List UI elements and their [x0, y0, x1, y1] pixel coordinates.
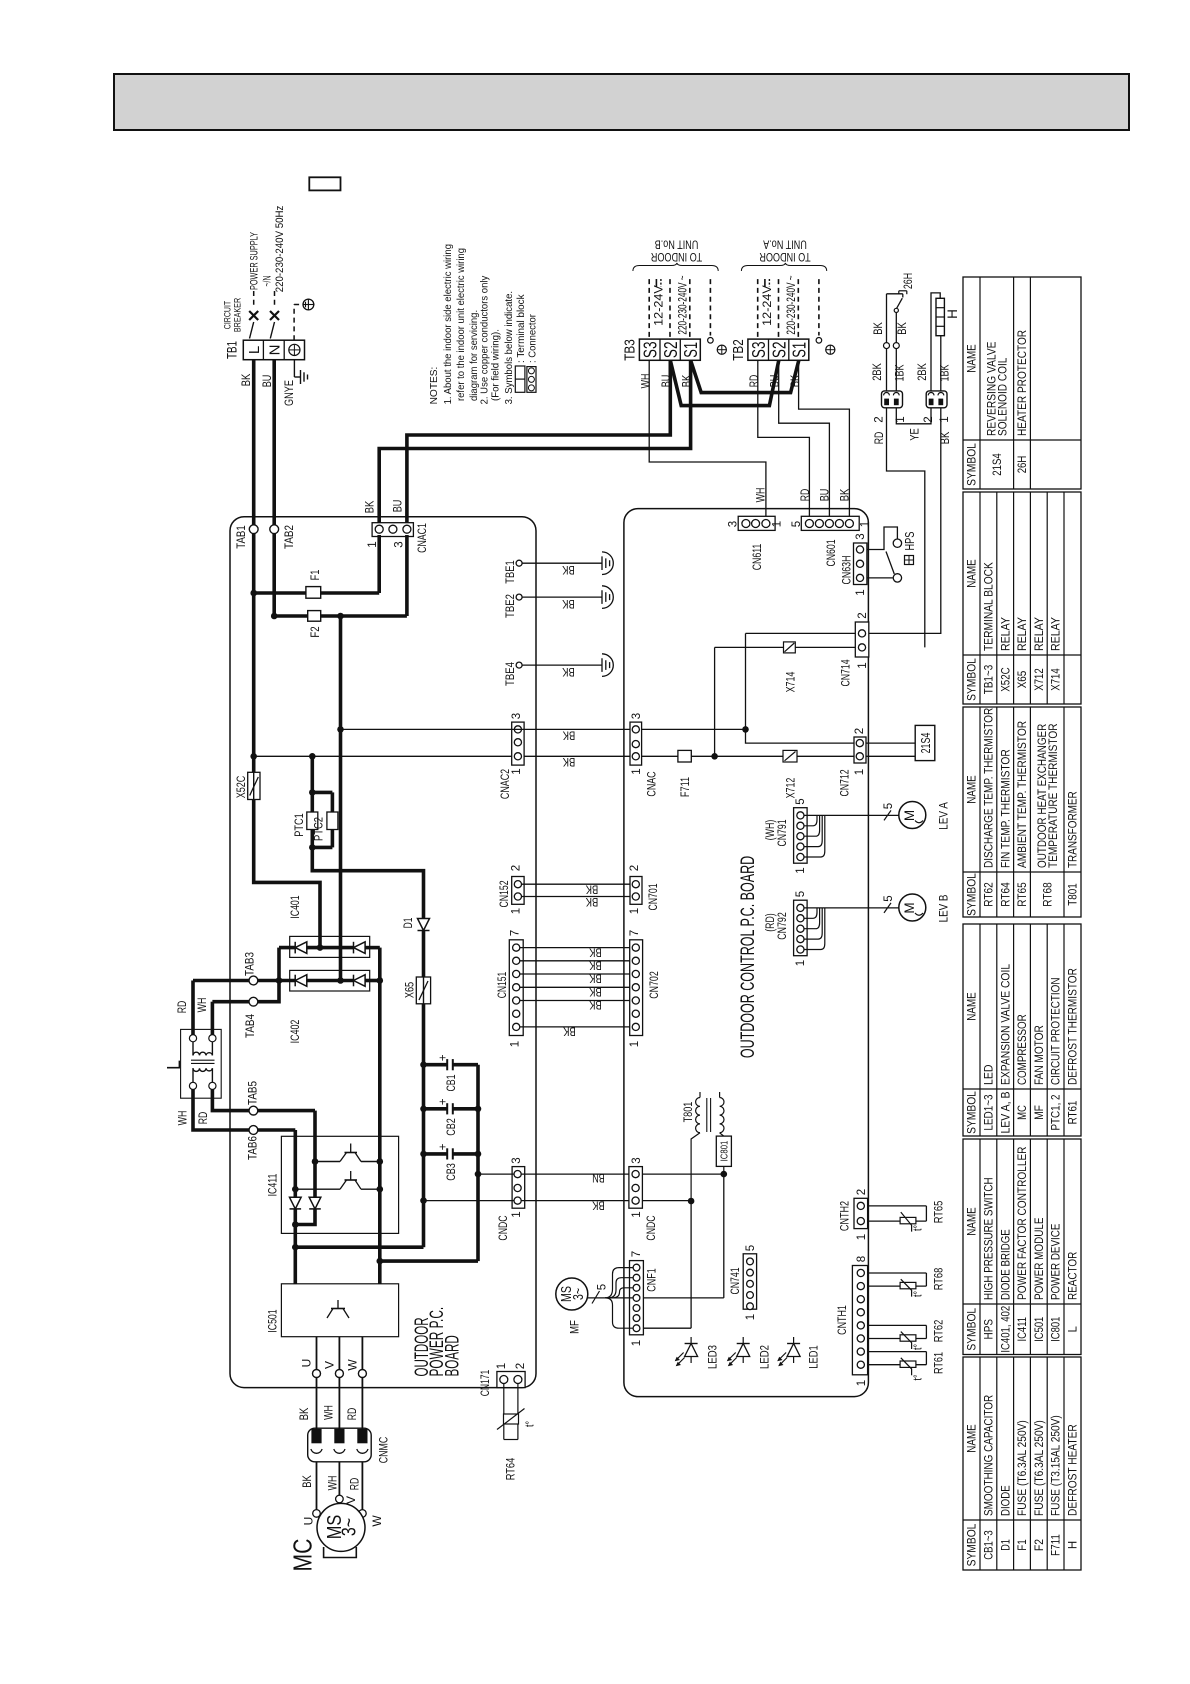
svg-text:M: M — [902, 810, 917, 821]
svg-text:L: L — [246, 346, 263, 354]
connector CN702 — [630, 940, 643, 1036]
svg-text:1: 1 — [745, 1314, 757, 1320]
svg-text:LED: LED — [984, 1065, 996, 1085]
svg-text:LED3: LED3 — [705, 1345, 719, 1369]
svg-text:SMOOTHING CAPACITOR: SMOOTHING CAPACITOR — [984, 1395, 996, 1516]
svg-text:IC411: IC411 — [1017, 1317, 1029, 1342]
svg-text:CB2: CB2 — [444, 1118, 458, 1136]
svg-text:CNAC2: CNAC2 — [498, 769, 512, 799]
svg-text:1: 1 — [857, 662, 869, 668]
IC411 diode DL — [290, 1197, 302, 1209]
svg-text:BK: BK — [585, 895, 598, 907]
svg-text:RELAY: RELAY — [1051, 617, 1063, 651]
IC411 diode DR — [313, 1162, 317, 1198]
svg-text:+: + — [438, 1054, 450, 1061]
connector pair for 26H — [882, 391, 903, 408]
svg-text:1: 1 — [631, 1340, 643, 1346]
svg-text:CNAC: CNAC — [644, 771, 658, 796]
wire BU TB3-S2 to CNAC1 pin3 — [407, 360, 670, 523]
svg-text:5: 5 — [883, 895, 895, 901]
svg-text:NAME: NAME — [967, 775, 979, 804]
wire RD TB2-S3 to CN601 pin5 — [758, 360, 810, 519]
svg-text:WH: WH — [178, 1111, 190, 1126]
thermistor RT61 — [868, 1351, 927, 1353]
svg-text:S2: S2 — [661, 342, 681, 359]
svg-text:TBE1: TBE1 — [503, 560, 517, 584]
svg-text:BREAKER: BREAKER — [232, 298, 243, 332]
svg-text:BK: BK — [562, 728, 575, 740]
svg-text:X714: X714 — [783, 671, 797, 692]
svg-text:LEV A, B: LEV A, B — [1000, 1091, 1012, 1133]
svg-text:t°: t° — [913, 1225, 925, 1231]
svg-text:MF: MF — [567, 1320, 581, 1334]
svg-text:t°: t° — [913, 1291, 925, 1297]
wire to 26H right — [895, 313, 897, 343]
high pressure switch HPS — [867, 527, 898, 550]
svg-text:RD: RD — [177, 1001, 189, 1014]
wire BK heater connector to CN714 — [869, 408, 941, 634]
connector CNDC control — [629, 1167, 643, 1209]
svg-text:(For field wiring).: (For field wiring). — [491, 329, 502, 401]
thermistor RT62 — [868, 1324, 927, 1326]
wire CNAC pin3 to CN712 pin2 — [642, 728, 746, 730]
svg-text:: Terminal block: : Terminal block — [516, 293, 527, 363]
wire BK TB2-S1 to CN601 pin1 — [799, 360, 850, 519]
relay X65 — [416, 977, 430, 1004]
svg-text:RELAY: RELAY — [1034, 617, 1046, 651]
capacitor CB3 — [420, 1151, 427, 1158]
svg-text:BU: BU — [393, 500, 405, 513]
svg-text:DIODE: DIODE — [1000, 1485, 1012, 1516]
connector CNAC2 — [512, 722, 524, 765]
connector CN791 — [794, 808, 808, 864]
earth symbol near TB3 — [717, 345, 726, 354]
svg-text:RT64: RT64 — [503, 1457, 517, 1480]
IC501 outputs U V W — [316, 1337, 318, 1370]
svg-text:X712: X712 — [783, 777, 797, 798]
connector CNAC1 — [372, 523, 413, 537]
svg-text:DIODE BRIDGE: DIODE BRIDGE — [1000, 1229, 1012, 1300]
svg-text:2: 2 — [856, 1189, 868, 1195]
terminal TAB1 — [249, 525, 258, 534]
svg-text:BK: BK — [241, 373, 253, 386]
connector pair for heater H — [926, 391, 947, 408]
svg-text:refer to the indoor unit elect: refer to the indoor unit electric wiring — [456, 248, 467, 401]
svg-text:S1: S1 — [789, 342, 809, 358]
svg-text:PTC1: PTC1 — [292, 813, 306, 837]
svg-text:2: 2 — [629, 865, 641, 871]
svg-text:3: 3 — [511, 1157, 523, 1163]
svg-text:NOTES:: NOTES: — [429, 367, 440, 405]
svg-text:X52C: X52C — [1000, 667, 1012, 691]
svg-text:IC801: IC801 — [719, 1141, 731, 1162]
svg-text:D1: D1 — [401, 917, 415, 928]
wire CNAC pin1 via F711 X712 to CN712 pin1 — [642, 755, 678, 757]
svg-text:CNMC: CNMC — [376, 1437, 390, 1464]
wire L bottom-left to TAB6 — [193, 1090, 249, 1131]
svg-text:TERMINAL BLOCK: TERMINAL BLOCK — [984, 562, 996, 651]
svg-text:DISCHARGE TEMP. THERMISTOR: DISCHARGE TEMP. THERMISTOR — [984, 708, 996, 868]
brace TB2 — [741, 263, 826, 271]
table group relays — [963, 492, 1081, 704]
svg-text:5: 5 — [795, 798, 807, 804]
protective earth symbol — [303, 299, 314, 310]
svg-text:CN151: CN151 — [495, 971, 509, 998]
connector CN152 — [512, 877, 524, 905]
svg-text:1: 1 — [860, 521, 872, 527]
connector CNTH2 — [854, 1198, 868, 1228]
connector CN741 — [743, 1254, 756, 1309]
svg-text:SYMBOL: SYMBOL — [967, 1307, 979, 1350]
svg-text:M: M — [902, 902, 917, 913]
svg-text:BK: BK — [589, 985, 602, 997]
svg-text:RELAY: RELAY — [1017, 617, 1029, 651]
connector CN712 — [854, 737, 866, 763]
svg-text:F1: F1 — [1017, 1539, 1029, 1551]
svg-text:RD: RD — [347, 1408, 359, 1421]
svg-text:MC: MC — [1017, 1105, 1029, 1120]
svg-text:TBE2: TBE2 — [503, 594, 517, 618]
connector CN63H — [854, 543, 867, 585]
wire heater left — [931, 293, 940, 391]
svg-text:TAB4: TAB4 — [243, 1014, 257, 1038]
svg-text:COMPRESSOR: COMPRESSOR — [1017, 1014, 1029, 1085]
svg-text:F711: F711 — [678, 777, 692, 798]
connector CN171 — [497, 1372, 525, 1388]
svg-text:BK: BK — [562, 597, 575, 609]
svg-text:GNYE: GNYE — [284, 380, 296, 406]
svg-text:BK: BK — [839, 488, 851, 501]
wires CNF1 to MF — [588, 1297, 633, 1299]
svg-text:POWER DEVICE: POWER DEVICE — [1051, 1223, 1063, 1300]
svg-text:3. Symbols below indicate.: 3. Symbols below indicate. — [504, 291, 515, 405]
outdoor control pc board outline — [624, 509, 869, 1397]
svg-text:WH: WH — [324, 1405, 336, 1420]
svg-text:WH: WH — [327, 1476, 339, 1491]
svg-text:1: 1 — [367, 541, 379, 547]
earth symbol TBE4 — [602, 654, 613, 677]
svg-text:2: 2 — [511, 865, 523, 871]
wire IC801 node to CNF1 pin4 — [723, 1174, 725, 1298]
fuse F2 — [271, 613, 278, 620]
svg-text:POWER FACTOR CONTROLLER: POWER FACTOR CONTROLLER — [1017, 1147, 1029, 1301]
compressor motor MC — [313, 1510, 321, 1518]
svg-text:CB1: CB1 — [444, 1074, 458, 1091]
wire TAB1 down — [252, 534, 256, 757]
svg-text:WH: WH — [755, 488, 767, 503]
svg-text:CN701: CN701 — [646, 883, 660, 910]
power supply dashed leads — [253, 291, 255, 308]
svg-text:MC: MC — [287, 1539, 317, 1572]
svg-text:1: 1 — [511, 768, 523, 774]
svg-text:12-24V: 12-24V — [654, 285, 666, 326]
svg-text:F711: F711 — [1051, 1534, 1063, 1556]
svg-text:1: 1 — [511, 1211, 523, 1217]
svg-text:DEFROST THERMISTOR: DEFROST THERMISTOR — [1068, 968, 1080, 1085]
svg-text:2: 2 — [515, 1363, 527, 1369]
wire L top-left to bus — [191, 981, 195, 1035]
ground symbol — [300, 370, 302, 384]
svg-text:1: 1 — [511, 908, 523, 914]
svg-text:diagram for servicing.: diagram for servicing. — [469, 310, 480, 401]
svg-text:F1: F1 — [308, 569, 322, 580]
svg-text:PTC2: PTC2 — [311, 817, 325, 841]
IC411 transistor Q2 — [295, 1188, 340, 1190]
svg-text:1: 1 — [629, 908, 641, 914]
LED1 — [787, 1344, 800, 1357]
svg-text:3~: 3~ — [339, 1518, 361, 1536]
svg-text:T801: T801 — [1068, 883, 1080, 905]
terminal TAB6 — [249, 1126, 258, 1135]
svg-text:1. About the indoor side elect: 1. About the indoor side electric wiring — [443, 244, 454, 404]
svg-text:5: 5 — [883, 803, 895, 809]
wire CN714 pin1 via X714 — [715, 646, 784, 648]
wire CNDC pin1 node to T801 — [642, 1200, 691, 1202]
svg-text:7: 7 — [510, 930, 522, 936]
svg-text:SYMBOL: SYMBOL — [967, 443, 979, 486]
wire TAB2 down — [272, 534, 276, 616]
svg-text:MF: MF — [1034, 1105, 1046, 1120]
defrost heater H — [936, 298, 944, 335]
thermistor RT68 — [868, 1272, 927, 1274]
outdoor power pc board outline — [230, 517, 536, 1388]
wire CNAC2 pin3 to CNAC pin3 — [341, 728, 631, 730]
svg-text:CN63H: CN63H — [839, 556, 853, 585]
wire to 26H left — [886, 349, 888, 391]
IC501 transistor glyph — [337, 1300, 339, 1309]
relay X52C — [252, 756, 256, 772]
svg-text:TEMPERATURE THERMISTOR: TEMPERATURE THERMISTOR — [1048, 724, 1060, 869]
svg-text:POWER MODULE: POWER MODULE — [1034, 1217, 1046, 1300]
svg-text:CIRCUIT PROTECTION: CIRCUIT PROTECTION — [1051, 978, 1063, 1086]
wire YE link — [896, 408, 931, 424]
wire L top-right to TAB4 — [211, 1002, 215, 1035]
motor LEV B — [899, 894, 926, 921]
svg-text:N: N — [267, 345, 284, 356]
svg-text:EXPANSION VALVE COIL: EXPANSION VALVE COIL — [1000, 963, 1012, 1085]
svg-text:RD: RD — [800, 489, 812, 502]
svg-text:3: 3 — [394, 541, 406, 547]
svg-text:t°: t° — [525, 1421, 537, 1427]
thermistor RT64 — [503, 1384, 505, 1440]
svg-text:BU: BU — [262, 375, 274, 388]
capacitor CB1 — [420, 1061, 427, 1068]
LED3 — [685, 1344, 698, 1357]
table group thermistors — [963, 707, 1081, 917]
svg-text:+: + — [438, 1143, 450, 1150]
svg-text:~/N: ~/N — [261, 276, 273, 287]
svg-text:V: V — [344, 1496, 358, 1504]
svg-text:T801: T801 — [681, 1101, 695, 1122]
wire heater right — [940, 336, 942, 391]
svg-text:CN171: CN171 — [478, 1369, 492, 1396]
svg-text:CN792: CN792 — [775, 912, 789, 940]
wire T801 left to CNDC node — [691, 1133, 700, 1201]
wire CNDC pin3 node to IC801 — [642, 1173, 723, 1175]
svg-text:1: 1 — [795, 867, 807, 873]
svg-text:26H: 26H — [1017, 456, 1029, 474]
wire CNDC pin1 to cap bus — [478, 1173, 514, 1175]
svg-text:HPS: HPS — [902, 531, 917, 550]
svg-text:CNDC: CNDC — [644, 1215, 658, 1240]
wire BK TB3-S1 to CNAC1 pin1 — [379, 360, 690, 523]
svg-text:W: W — [370, 1515, 384, 1527]
svg-text:220-230-240V ~: 220-230-240V ~ — [786, 275, 798, 334]
svg-text:RT68: RT68 — [931, 1267, 945, 1290]
svg-text:5: 5 — [597, 1284, 609, 1290]
wire IC411 to IC501 left — [293, 1225, 297, 1284]
table group loads — [963, 924, 1081, 1136]
fan motor MF — [556, 1278, 588, 1310]
svg-text:WH: WH — [640, 374, 652, 389]
svg-text:IC411: IC411 — [266, 1173, 280, 1196]
svg-text:1: 1 — [496, 1363, 508, 1369]
svg-text:TAB5: TAB5 — [245, 1081, 259, 1105]
svg-text:3: 3 — [631, 1157, 643, 1163]
svg-text:S3: S3 — [749, 342, 769, 359]
connector CN714 — [855, 622, 869, 657]
svg-text:TAB3: TAB3 — [242, 952, 256, 976]
svg-text:LED2: LED2 — [757, 1345, 771, 1369]
connector CN792 — [794, 900, 808, 956]
connector legend icon — [527, 367, 536, 393]
svg-text:TB3: TB3 — [621, 339, 638, 361]
svg-text:CB3: CB3 — [444, 1163, 458, 1181]
svg-text:RT62: RT62 — [931, 1319, 945, 1342]
reversing valve coil 21S4 — [866, 742, 915, 744]
small legend rectangle — [309, 177, 340, 190]
svg-text:SYMBOL: SYMBOL — [967, 1091, 979, 1134]
svg-text:1: 1 — [631, 768, 643, 774]
svg-text:21S4: 21S4 — [992, 453, 1004, 476]
svg-text:1: 1 — [795, 960, 807, 966]
svg-text:26H: 26H — [903, 273, 915, 289]
svg-text:NAME: NAME — [967, 992, 979, 1021]
connector CNF1 — [630, 1261, 644, 1335]
connector CNAC — [630, 722, 642, 765]
svg-text:RT61: RT61 — [1068, 1101, 1080, 1125]
svg-text:FUSE (T6.3AL 250V): FUSE (T6.3AL 250V) — [1017, 1420, 1029, 1516]
svg-text:BK: BK — [365, 500, 377, 513]
svg-text:CN601: CN601 — [824, 539, 838, 566]
svg-text:CNTH2: CNTH2 — [837, 1201, 851, 1231]
circuit protector PTC1/PTC2 — [310, 756, 314, 792]
svg-text:CN791: CN791 — [775, 819, 789, 846]
svg-text:1: 1 — [631, 1211, 643, 1217]
svg-text:H: H — [945, 309, 960, 319]
svg-text:1: 1 — [510, 1041, 522, 1047]
svg-text:NAME: NAME — [967, 1207, 979, 1236]
svg-text:X52C: X52C — [234, 775, 248, 798]
connector CN611 — [738, 516, 775, 530]
svg-text:DEFROST HEATER: DEFROST HEATER — [1068, 1424, 1080, 1516]
svg-text:IC401, 402: IC401, 402 — [1000, 1306, 1012, 1353]
earth symbol near TB2 — [826, 345, 835, 354]
svg-text:HIGH PRESSURE SWITCH: HIGH PRESSURE SWITCH — [984, 1177, 996, 1300]
svg-text:BK: BK — [302, 1475, 314, 1488]
svg-text:5: 5 — [791, 521, 803, 527]
svg-text:YE: YE — [910, 428, 922, 441]
svg-text:BN: BN — [592, 1171, 605, 1183]
wires CN792 to LEV B — [804, 907, 899, 909]
svg-text:V: V — [322, 1361, 336, 1369]
wire CNAC2 top branch — [337, 613, 344, 620]
svg-text:IC402: IC402 — [288, 1019, 302, 1043]
capacitor CB2 — [420, 1106, 427, 1113]
svg-text:21S4: 21S4 — [918, 733, 933, 754]
wire CNDC pin3 to left bus — [424, 1200, 515, 1202]
svg-text:CB1~3: CB1~3 — [984, 1530, 996, 1559]
svg-text:IC401: IC401 — [288, 895, 302, 919]
motor LEV A — [899, 802, 926, 829]
svg-text:NAME: NAME — [967, 559, 979, 588]
svg-text:TRANSFORMER: TRANSFORMER — [1068, 791, 1080, 868]
IC411 transistor Q1 — [315, 1161, 340, 1163]
power device IC801 — [720, 1133, 724, 1136]
svg-text:RT65: RT65 — [931, 1200, 945, 1223]
svg-text:t°: t° — [913, 1344, 925, 1350]
svg-text:LED1~3: LED1~3 — [984, 1094, 996, 1130]
svg-text:7: 7 — [629, 930, 641, 936]
svg-text:UNIT No.A: UNIT No.A — [763, 237, 807, 249]
wire L bottom-right to TAB5 — [212, 1090, 249, 1111]
svg-text:3: 3 — [855, 533, 867, 539]
svg-text:7: 7 — [631, 1251, 643, 1257]
svg-text:REACTOR: REACTOR — [1068, 1252, 1080, 1300]
svg-text:CNAC1: CNAC1 — [415, 523, 429, 553]
brace TB3 — [633, 263, 718, 271]
svg-text:X65: X65 — [1017, 671, 1029, 689]
svg-text:TB1~3: TB1~3 — [984, 665, 996, 694]
diode D1 — [418, 919, 430, 931]
earth symbol TBE1 — [602, 552, 613, 575]
wire GNYE to ground — [293, 360, 295, 377]
svg-text:2: 2 — [874, 416, 886, 422]
svg-text:CN152: CN152 — [497, 880, 511, 907]
svg-text:1: 1 — [856, 1380, 868, 1386]
relay X714 — [784, 642, 796, 653]
terminal block legend icon — [515, 366, 525, 392]
svg-text:BK: BK — [562, 563, 575, 575]
svg-text:TO INDOOR: TO INDOOR — [759, 250, 810, 262]
svg-text:CN741: CN741 — [728, 1267, 742, 1294]
wire RD 26H connector to CN714 — [887, 408, 925, 648]
wires CN791 to LEV A — [804, 814, 899, 816]
svg-text:3~: 3~ — [570, 1288, 587, 1300]
connector CNDC power — [512, 1167, 525, 1209]
svg-text:U: U — [301, 1517, 315, 1526]
wires CN151 to CN702 — [520, 947, 630, 949]
wires CNDC to CNDC control — [521, 1173, 632, 1175]
svg-text:t°: t° — [913, 1374, 925, 1380]
svg-text:RT62: RT62 — [984, 882, 996, 906]
svg-text:X714: X714 — [1051, 668, 1063, 691]
svg-text:PTC1, 2: PTC1, 2 — [1051, 1095, 1063, 1131]
wire TAB1 branch to CNAC2 — [250, 753, 257, 760]
wire cap bus return left — [295, 1245, 423, 1249]
svg-text:FUSE (T6.3AL 250V): FUSE (T6.3AL 250V) — [1034, 1420, 1046, 1516]
svg-text:S3: S3 — [640, 342, 660, 359]
svg-text:OUTDOOR CONTROL P.C. BOARD: OUTDOOR CONTROL P.C. BOARD — [738, 856, 759, 1058]
svg-text:AMBIENT TEMP. THERMISTOR: AMBIENT TEMP. THERMISTOR — [1017, 721, 1029, 868]
svg-text:UNIT No.B: UNIT No.B — [654, 237, 698, 249]
terminal TAB4 — [249, 997, 258, 1006]
svg-text:SYMBOL: SYMBOL — [967, 873, 979, 916]
svg-text:CNF1: CNF1 — [644, 1268, 658, 1292]
svg-text:2BK: 2BK — [917, 363, 929, 381]
svg-text:TB2: TB2 — [730, 339, 747, 361]
svg-text:TBE4: TBE4 — [503, 662, 517, 686]
